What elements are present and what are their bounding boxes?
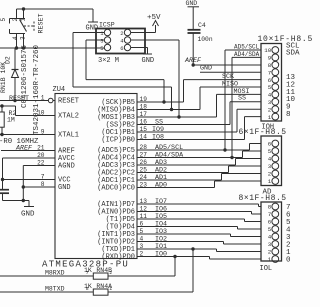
- svg-text:GND: GND: [200, 65, 212, 73]
- svg-text:2: 2: [140, 250, 144, 257]
- svg-text:5: 5: [268, 148, 272, 155]
- ICSP name 3x2 M: [98, 57, 119, 65]
- svg-text:13: 13: [140, 198, 148, 205]
- net labels IO7-IO0: [155, 198, 167, 259]
- label 1M: [7, 117, 15, 124]
- wire ICSP pin6 to GND: [131, 48, 148, 54]
- svg-text:17: 17: [140, 111, 148, 118]
- IC value ATMEGA328P-PU: [42, 260, 129, 270]
- net label AD2: [155, 167, 167, 175]
- svg-text:11: 11: [140, 213, 148, 220]
- svg-text:RESET: RESET: [38, 13, 46, 33]
- svg-text:6: 6: [140, 220, 144, 227]
- svg-text:21: 21: [37, 144, 45, 151]
- svg-text:GND: GND: [142, 57, 155, 65]
- svg-text:XTAL1: XTAL1: [58, 131, 79, 139]
- net label AD1: [155, 174, 167, 182]
- wire IO9 (PB1) to IOH pin 2: [152, 109, 261, 132]
- wire SS (PB2) to IOH pin 3: [152, 102, 261, 125]
- wire XTAL1 to resonator: [0, 133, 55, 136]
- svg-text:9: 9: [41, 128, 45, 135]
- svg-text:3×2 M: 3×2 M: [98, 57, 119, 65]
- svg-text:1K: 1K: [84, 283, 92, 290]
- net label MOSI: [234, 88, 250, 96]
- net label SS (near MCU): [155, 119, 163, 127]
- svg-text:23: 23: [140, 181, 148, 188]
- RN4B pin numbers: [86, 270, 112, 276]
- svg-text:XTAL2: XTAL2: [58, 112, 79, 120]
- svg-text:6: 6: [268, 77, 272, 84]
- ICSP pin circles: [104, 29, 130, 50]
- svg-text:25: 25: [140, 166, 148, 173]
- svg-text:8: 8: [286, 111, 291, 119]
- wire cap to GND node: [3, 199, 30, 207]
- svg-text:IO8: IO8: [152, 134, 164, 142]
- button pin 4 label: [12, 36, 19, 40]
- net label AREF (left): [15, 145, 33, 153]
- button pin 5 label: [0, 18, 7, 22]
- svg-text:AGND: AGND: [58, 162, 75, 170]
- net label SS (near IOH): [238, 95, 246, 103]
- wire GND pin 8: [22, 185, 55, 188]
- svg-text:GND: GND: [58, 184, 71, 192]
- svg-text:8: 8: [268, 62, 272, 69]
- pushbutton RESET (tactile switch): [10, 9, 35, 48]
- svg-text:RESET: RESET: [58, 97, 79, 105]
- svg-text:6: 6: [268, 141, 272, 148]
- ICSP connector body 3x2: [96, 29, 145, 54]
- label 1K RN4B: [84, 267, 112, 274]
- IOH title 10x1F-H8.5: [258, 35, 314, 44]
- resonator value -R0 16MHZ: [0, 138, 39, 146]
- IC designator ZU4: [53, 86, 66, 94]
- net label AD0: [155, 182, 167, 190]
- svg-text:10: 10: [37, 109, 45, 116]
- svg-text:14: 14: [140, 133, 148, 140]
- net label IO8: [152, 134, 164, 142]
- label R2: [9, 110, 17, 117]
- connector IOH body: [261, 44, 282, 122]
- IOH pin numbers: [264, 47, 271, 121]
- RN4A pin numbers: [86, 286, 112, 292]
- AD pin circles: [272, 140, 279, 184]
- AD name: [263, 189, 273, 197]
- button name RESET (vertical): [38, 13, 46, 33]
- svg-text:D2: D2: [5, 56, 12, 64]
- wire MOSI from ICSP pin4: [131, 40, 181, 119]
- svg-text:24: 24: [140, 174, 148, 181]
- wire SCK from ICSP pin3: [86, 40, 166, 104]
- wire AREF pin 21: [1, 150, 55, 152]
- net label GND (IOH): [200, 65, 212, 73]
- svg-text:1: 1: [268, 256, 272, 263]
- svg-text:7: 7: [41, 173, 45, 180]
- net label MISO: [222, 80, 238, 88]
- svg-text:0: 0: [286, 257, 291, 265]
- net label M8RXD: [45, 270, 65, 277]
- ICSP pin numbers: [100, 30, 124, 52]
- svg-text:ICSP: ICSP: [99, 22, 115, 29]
- wires IO7-IO0 (PD7-PD0) to IOL pins: [152, 204, 261, 259]
- svg-text:AD0: AD0: [155, 182, 167, 190]
- IOH name: [262, 124, 275, 132]
- svg-text:7: 7: [268, 211, 272, 218]
- svg-text:10: 10: [264, 47, 271, 54]
- svg-text:1: 1: [20, 18, 27, 22]
- svg-text:4: 4: [140, 235, 144, 242]
- wire AD3 (PC3) to AD pin 4: [152, 159, 261, 166]
- svg-text:4: 4: [268, 234, 272, 241]
- wire AD2 (PC2) to AD pin 3: [152, 166, 261, 173]
- svg-text:IO0: IO0: [155, 251, 167, 259]
- wire IO8 (PB0) to IOH pin 1: [152, 117, 261, 140]
- wire AD4/SDA (PC4) to IOH pin 9 and AD pin 5: [152, 57, 261, 159]
- MCU RESET inversion bubble: [48, 98, 53, 103]
- svg-text:RESET: RESET: [9, 95, 29, 103]
- svg-text:RN1B 10K: RN1B 10K: [0, 62, 7, 93]
- wire ICSP pin2 to +5V: [131, 25, 156, 33]
- svg-text:2: 2: [12, 18, 19, 22]
- wire SCK (PB5) to IOH pin 6: [152, 80, 261, 102]
- wire AREF to IOH pin 8: [192, 63, 262, 66]
- wire RESET rail to ICSP pin5: [0, 46, 104, 49]
- svg-text:28: 28: [140, 144, 148, 151]
- net label AD5/SCL (near IOH): [234, 44, 260, 51]
- svg-text:5: 5: [268, 226, 272, 233]
- svg-text:7: 7: [268, 69, 272, 76]
- svg-text:IOL: IOL: [260, 265, 273, 273]
- MCU left pin stubs, numbers and names: [37, 94, 79, 192]
- capacitor C4: [188, 30, 201, 65]
- svg-text:9: 9: [268, 55, 272, 62]
- wire MOSI (PB3) to IOH pin 4: [152, 94, 261, 117]
- svg-text:2: 2: [268, 171, 272, 178]
- svg-text:3: 3: [20, 36, 27, 40]
- svg-text:6: 6: [268, 219, 272, 226]
- label 100n: [198, 36, 213, 43]
- label 1K RN4A: [84, 283, 112, 290]
- svg-text:4: 4: [268, 156, 272, 163]
- IOH pin circles: [272, 47, 279, 120]
- svg-text:SDA: SDA: [286, 50, 300, 58]
- +5V supply symbol: [147, 14, 161, 26]
- svg-text:TS42031-160R-TR-7260: TS42031-160R-TR-7260: [33, 44, 41, 135]
- svg-text:(ICP)PB0: (ICP)PB0: [101, 136, 135, 144]
- MCU right pin stubs, numbers and names: [97, 96, 152, 261]
- svg-text:26: 26: [140, 159, 148, 166]
- svg-text:5: 5: [0, 18, 7, 22]
- svg-text:2: 2: [268, 249, 272, 256]
- net label AD3: [155, 159, 167, 167]
- button part number column 2: [33, 44, 41, 135]
- svg-text:AD5/SCL: AD5/SCL: [234, 44, 260, 51]
- svg-text:4: 4: [12, 36, 19, 40]
- svg-text:100n: 100n: [198, 36, 213, 43]
- button part number column 1: [21, 44, 29, 108]
- net label M8TXD: [45, 286, 65, 293]
- svg-text:1K: 1K: [84, 267, 92, 274]
- label C4: [198, 22, 206, 29]
- button pin 1 label: [20, 18, 27, 22]
- wire AD0 (PC0) to AD pin 1: [152, 181, 261, 188]
- svg-text:(ADC0)PC0: (ADC0)PC0: [97, 184, 135, 192]
- connector AD body: [261, 136, 282, 186]
- svg-text:M8TXD: M8TXD: [45, 286, 65, 293]
- svg-text:SS: SS: [238, 95, 246, 103]
- svg-text:2: 2: [120, 30, 123, 37]
- svg-text:6: 6: [120, 45, 123, 52]
- svg-text:3: 3: [100, 38, 103, 45]
- svg-text:RN4A: RN4A: [96, 283, 112, 290]
- wire MISO from ICSP pin1: [73, 33, 173, 112]
- svg-text:12: 12: [140, 205, 148, 212]
- svg-text:GND: GND: [21, 211, 35, 219]
- svg-text:3: 3: [268, 241, 272, 248]
- wire MISO (PB4) to IOH pin 5: [152, 87, 261, 110]
- svg-text:2: 2: [268, 106, 272, 113]
- ground symbol (C4): [186, 0, 200, 29]
- svg-text:ZU4: ZU4: [53, 86, 66, 94]
- net label RESET: [9, 95, 29, 103]
- svg-text:27: 27: [140, 151, 148, 158]
- ICSP title: [99, 22, 115, 29]
- resistor R2 1M: [0, 106, 4, 135]
- svg-text:15: 15: [140, 126, 148, 133]
- net label AD5/SCL (near MCU): [155, 144, 183, 152]
- svg-text:5: 5: [140, 228, 144, 235]
- svg-text:8: 8: [41, 181, 45, 188]
- svg-text:1M: 1M: [7, 117, 15, 124]
- IC ZU4 ATMEGA328P-PU body: [55, 94, 137, 259]
- button pin 2 label: [12, 18, 19, 22]
- svg-text:22: 22: [37, 159, 45, 166]
- svg-text:3: 3: [140, 243, 144, 250]
- svg-text:+5V: +5V: [147, 14, 161, 22]
- svg-text:5: 5: [100, 45, 103, 52]
- diode D2 designator (vertical): [5, 56, 12, 64]
- wire AD5/SCL (PC5) to IOH pin 10 and AD pin 6: [152, 50, 261, 152]
- svg-text:19: 19: [140, 96, 148, 103]
- svg-text:18: 18: [140, 103, 148, 110]
- IOL name: [260, 265, 273, 273]
- ground symbol (MCU GND): [21, 207, 35, 219]
- net label SCK: [222, 73, 234, 81]
- resistor RN1B 10K label (vertical): [0, 62, 7, 93]
- AD pin numbers: [268, 141, 272, 186]
- resistor RN4B 1K: [93, 273, 108, 279]
- IOL title 8x1F-H8.5: [239, 194, 287, 203]
- svg-text:AD4/SDA: AD4/SDA: [234, 51, 260, 58]
- wire M8TXD: [0, 247, 195, 292]
- svg-text:20: 20: [37, 152, 45, 159]
- button pin 3 label: [20, 36, 27, 40]
- net label AD4/SDA (near MCU): [155, 152, 184, 160]
- ground symbol (button top): [86, 22, 99, 33]
- svg-text:1: 1: [268, 114, 272, 121]
- svg-text:(RXD)PD0: (RXD)PD0: [101, 253, 135, 261]
- svg-text:C4: C4: [198, 22, 206, 29]
- wire VCC pin 7: [1, 178, 55, 181]
- svg-text:8: 8: [268, 204, 272, 211]
- connector IOL body: [261, 202, 282, 261]
- wire M8RXD: [0, 255, 177, 276]
- svg-text:3: 3: [268, 163, 272, 170]
- wire RESET-button top rail to GND: [17, 7, 94, 21]
- IOL right labels: [286, 204, 291, 265]
- IOL pin numbers: [268, 204, 272, 264]
- svg-text:GND: GND: [186, 0, 198, 7]
- IOL pin circles: [272, 203, 279, 262]
- diode D2: [12, 48, 19, 101]
- wire RESET net to MCU pin 1: [0, 99, 48, 102]
- wire AGND pin 22: [23, 166, 55, 201]
- net label IO9: [152, 126, 164, 134]
- wire AVCC pin 20 to +5V node: [3, 158, 56, 189]
- net label AREF (right): [184, 57, 202, 65]
- ground symbol (ICSP): [142, 54, 155, 65]
- svg-text:4: 4: [268, 92, 272, 99]
- net label AD4/SDA (near IOH): [234, 51, 260, 58]
- node A wire (resonator to XTAL2): [0, 104, 55, 115]
- resistor RN4A 1K: [93, 289, 108, 295]
- IOH right labels: [286, 42, 300, 119]
- svg-text:M8RXD: M8RXD: [45, 270, 65, 277]
- svg-text:RN4B: RN4B: [96, 267, 112, 274]
- svg-text:1: 1: [268, 178, 272, 185]
- svg-text:5: 5: [268, 84, 272, 91]
- svg-text:1: 1: [41, 94, 45, 101]
- svg-text:3: 3: [268, 99, 272, 106]
- svg-text:16: 16: [140, 118, 148, 125]
- wire AD1 (PC1) to AD pin 2: [152, 174, 261, 181]
- AD title 6x1F-H8.5: [239, 128, 287, 137]
- wire GND to IOH pin 7: [200, 71, 261, 73]
- svg-text:AREF: AREF: [15, 145, 33, 153]
- capacitor C6 100n (VCC bypass): [0, 190, 9, 201]
